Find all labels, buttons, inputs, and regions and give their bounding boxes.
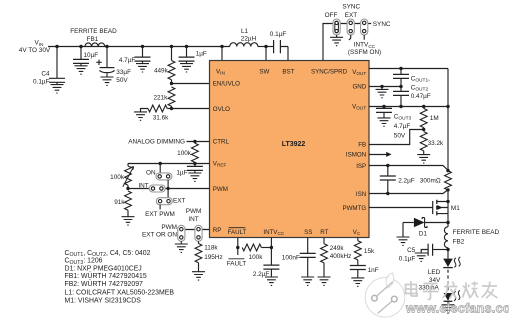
ground [376, 89, 389, 97]
wire VREF [128, 162, 210, 165]
capacitor 1uF at VIN [179, 45, 207, 64]
svg-text:SYNC: SYNC [342, 3, 360, 10]
LED D3 bottom [444, 290, 460, 304]
capacitor COUT2 [393, 84, 431, 106]
svg-text:EN/UVLO: EN/UVLO [213, 80, 240, 87]
wire VOUT rail [446, 69, 449, 171]
svg-text:M1: M1 [451, 205, 460, 212]
svg-text:FAULT: FAULT [227, 260, 247, 267]
ground [378, 118, 391, 126]
capacitor COUT3 4.7uF 50V [376, 107, 412, 140]
svg-text:1µF: 1µF [176, 169, 187, 176]
ground [415, 253, 428, 261]
svg-text:ISP: ISP [356, 163, 366, 170]
svg-text:LED: LED [428, 269, 441, 276]
ground [122, 217, 135, 225]
jumper PWM INT [186, 208, 202, 241]
svg-text:FB: FB [358, 141, 366, 148]
svg-text:COUT1, COUT2, C4, C5: 0402: COUT1, COUT2, C4, C5: 0402 [65, 250, 151, 258]
inductor L1 22uH [230, 28, 258, 46]
svg-text:449k: 449k [154, 68, 169, 75]
jumper EXT [145, 197, 185, 218]
transistor M1 PMOS [369, 200, 460, 216]
potentiometer 100k [110, 164, 133, 189]
wire PWM [128, 188, 210, 190]
jumper INTVCC SSFM [348, 19, 381, 56]
node notes component table [65, 250, 175, 304]
svg-text:LT3922: LT3922 [282, 141, 306, 148]
svg-text:D1: NXP PMEG4010CEJ: D1: NXP PMEG4010CEJ [65, 265, 142, 272]
wire GND pin [369, 85, 401, 90]
svg-text:FERRITE BEAD: FERRITE BEAD [453, 229, 500, 236]
svg-text:COUT3: COUT3 [394, 113, 412, 121]
wire RP [181, 229, 209, 231]
svg-text:118k: 118k [204, 245, 218, 252]
svg-text:FB1: FB1 [87, 36, 99, 43]
svg-text:0.1µF: 0.1µF [399, 256, 416, 263]
resistor 15k VC [354, 238, 375, 266]
svg-text:FB2: FB2 [453, 238, 465, 245]
capacitor 1uF VREF [176, 164, 203, 177]
svg-text:L1: COILCRAFT XAL5050-223MEB: L1: COILCRAFT XAL5050-223MEB [65, 289, 175, 296]
wire rail to M1 [447, 190, 449, 202]
svg-text:33µF: 33µF [116, 69, 131, 76]
svg-text:ISMON: ISMON [346, 152, 366, 159]
ferrite bead FB2 [444, 227, 499, 248]
capacitor 4.7uF [119, 45, 151, 64]
svg-text:www.elecfans.com: www.elecfans.com [405, 302, 509, 316]
ground [175, 244, 188, 252]
svg-text:100k: 100k [177, 150, 192, 157]
node FAULT output [227, 238, 247, 268]
svg-text:RP: RP [213, 227, 222, 234]
svg-text:ON: ON [146, 169, 156, 176]
jumper PWM EXT OR ON [142, 224, 185, 244]
pin FAULT (bottom) [228, 228, 247, 236]
wire SW node [258, 45, 273, 61]
svg-text:PWM: PWM [186, 208, 202, 215]
wire jumper link [167, 180, 170, 201]
svg-text:15k: 15k [364, 248, 375, 255]
svg-text:EXT: EXT [173, 197, 186, 204]
svg-text:EXT: EXT [345, 12, 358, 19]
ground [417, 155, 430, 163]
svg-text:SYNC: SYNC [373, 21, 391, 28]
svg-text:INT: INT [138, 183, 148, 190]
resistor 118k 195Hz [195, 241, 223, 271]
ground [180, 64, 193, 72]
capacitor 2.2uF INTVCC [253, 238, 280, 279]
svg-text:FB2: WÜRTH 742792097: FB2: WÜRTH 742792097 [65, 280, 144, 288]
svg-text:M1: VISHAY SI2319CDS: M1: VISHAY SI2319CDS [65, 297, 142, 304]
svg-text:1nF: 1nF [368, 267, 379, 274]
node VIN input [19, 40, 51, 54]
svg-text:COUT2: COUT2 [411, 84, 429, 92]
wire ISMON arrow [369, 152, 392, 157]
node watermark chinese text [406, 281, 498, 299]
capacitor 10uF [73, 45, 98, 66]
ground [442, 305, 455, 313]
ground [301, 277, 314, 285]
svg-text:INT: INT [188, 216, 198, 223]
wire LED node [446, 248, 449, 259]
svg-text:100k: 100k [110, 174, 125, 181]
ground [75, 66, 88, 74]
svg-text:SS: SS [304, 229, 312, 236]
wire LED string dashed [447, 270, 449, 293]
wire FB [369, 130, 424, 145]
svg-text:0.1µF: 0.1µF [33, 79, 50, 86]
svg-text:OVLO: OVLO [213, 106, 230, 113]
svg-text:PWMTG: PWMTG [342, 205, 366, 212]
ground [397, 237, 410, 245]
resistor 100k CTRL [177, 143, 198, 163]
resistor 100k FAULT pullup [242, 244, 271, 261]
svg-text:0.1µF: 0.1µF [270, 31, 287, 38]
svg-text:C5: C5 [407, 247, 416, 254]
svg-text:91k: 91k [114, 199, 125, 206]
svg-text:FERRITE BEAD: FERRITE BEAD [70, 28, 117, 35]
svg-text:50V: 50V [394, 133, 406, 140]
resistor 1M [420, 107, 438, 130]
resistor 221k [153, 87, 174, 109]
svg-text:33.2k: 33.2k [428, 140, 444, 147]
node SYNC labels [325, 3, 391, 28]
svg-text:EXT OR ON: EXT OR ON [142, 232, 177, 239]
ground [330, 37, 343, 45]
svg-text:(SSFM ON): (SSFM ON) [348, 49, 381, 56]
capacitor 100nF SS [282, 238, 316, 278]
svg-text:RT: RT [320, 229, 328, 236]
jumper ON [146, 164, 172, 180]
op-amp U1 LT3922 chip body [210, 61, 370, 238]
svg-text:100nF: 100nF [282, 255, 300, 262]
svg-text:L1: L1 [241, 28, 249, 35]
resistor 31.6k [141, 105, 170, 122]
node ANALOG DIMMING input [128, 139, 209, 146]
wire ISP [369, 164, 450, 173]
ferrite bead FB1 [70, 28, 117, 47]
jumper INT [138, 183, 165, 193]
svg-text:100k: 100k [249, 254, 264, 261]
ground [351, 278, 364, 286]
wire VOUT mid [369, 105, 448, 108]
svg-text:EXT PWM: EXT PWM [145, 211, 175, 218]
wire OVLO [167, 107, 209, 110]
resistor 300mOhm [420, 171, 452, 190]
capacitor 2.2uF sense [380, 166, 415, 194]
capacitor C5 0.1uF [399, 244, 448, 263]
svg-text:31.6k: 31.6k [153, 115, 169, 122]
svg-text:1M: 1M [430, 115, 439, 122]
svg-text:FAULT: FAULT [228, 229, 247, 236]
LED D2 top [419, 257, 461, 292]
wire EN/UVLO [170, 82, 210, 85]
capacitor 33uF 50V [96, 45, 131, 84]
wire VOUT top [369, 67, 448, 70]
svg-text:PWM: PWM [213, 186, 228, 193]
svg-text:SW: SW [259, 69, 269, 76]
resistor 249k 400kHz RT [321, 238, 352, 278]
resistor 449k [154, 45, 175, 84]
capacitor 1nF VC [350, 266, 379, 278]
capacitor C4 0.1uF [33, 45, 65, 86]
node watermark elecfans logo [365, 273, 405, 317]
svg-text:SYNC/SPRD: SYNC/SPRD [311, 69, 348, 76]
capacitor 0.1uF BST [270, 31, 288, 60]
svg-text:D1: D1 [419, 231, 428, 238]
svg-text:BST: BST [282, 69, 294, 76]
svg-text:PWM: PWM [161, 224, 177, 231]
jumper SYNC EXT [347, 19, 354, 40]
svg-text:C4: C4 [41, 71, 50, 78]
svg-text:2.2µF: 2.2µF [398, 177, 415, 184]
svg-text:22µH: 22µH [241, 36, 257, 43]
ground [192, 272, 205, 280]
ground [101, 77, 114, 85]
jumper OFF [333, 19, 340, 37]
svg-text:ISN: ISN [356, 191, 366, 198]
ground [188, 173, 201, 181]
svg-text:ANALOG DIMMING: ANALOG DIMMING [128, 139, 185, 146]
ground [136, 64, 149, 72]
svg-text:GND: GND [352, 83, 366, 90]
svg-text:400kHz: 400kHz [330, 253, 352, 260]
svg-text:195Hz: 195Hz [204, 254, 222, 261]
resistor 33.2k [420, 128, 444, 155]
wire ISN [369, 188, 450, 195]
diode D1 schottky [403, 218, 448, 238]
ground [265, 277, 278, 285]
ground [318, 277, 331, 285]
svg-text:4V TO 30V: 4V TO 30V [19, 47, 51, 54]
svg-text:1µF: 1µF [196, 50, 207, 57]
svg-text:300mΩ: 300mΩ [420, 177, 441, 184]
wire rail to D1 node [446, 214, 449, 227]
ground [134, 112, 147, 120]
svg-text:4.7µF: 4.7µF [394, 123, 411, 130]
svg-text:249k: 249k [330, 245, 345, 252]
resistor 91k [114, 187, 131, 217]
wire SYNC/SPRD riser [323, 24, 371, 61]
ground [51, 85, 64, 93]
svg-text:0.47µF: 0.47µF [411, 93, 431, 100]
svg-text:4.7µF: 4.7µF [119, 57, 136, 64]
svg-text:10µF: 10µF [84, 52, 99, 59]
svg-text:FB1: WÜRTH 7427920415: FB1: WÜRTH 7427920415 [65, 272, 147, 280]
svg-text:221k: 221k [153, 94, 168, 101]
wire VIN pin drop [220, 45, 223, 61]
svg-text:OFF: OFF [325, 12, 338, 19]
svg-text:COUT1,: COUT1, [411, 75, 430, 83]
svg-text:CTRL: CTRL [213, 138, 230, 145]
wire VIN rail [48, 46, 230, 48]
svg-text:50V: 50V [116, 77, 128, 84]
capacitor COUT1 [393, 69, 430, 87]
